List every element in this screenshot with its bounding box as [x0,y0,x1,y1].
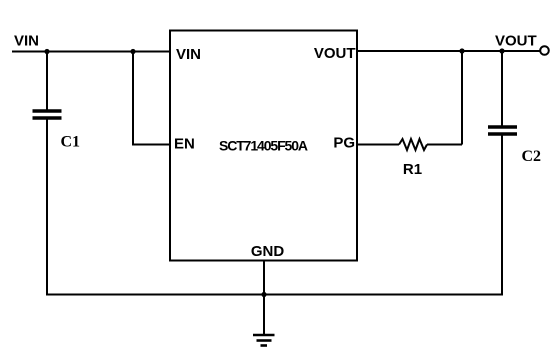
svg-text:SCT71405F50A: SCT71405F50A [219,138,308,154]
wire ground rail [46,294,503,296]
wire C1 top lead [46,52,48,111]
wire R1 riser to VOUT node [461,51,463,145]
svg-text:VOUT: VOUT [495,33,537,50]
svg-text:PG: PG [333,135,355,152]
svg-text:GND: GND [251,243,285,260]
node junction VIN/C1 [44,49,49,54]
svg-text:VOUT: VOUT [314,45,356,62]
ground [253,335,275,346]
wire C2 bottom lead to ground rail [501,136,503,296]
wire R1 to VOUT rail [427,144,462,146]
node junction VOUT/C2 [499,48,504,53]
node junction VOUT/R1 [459,48,464,53]
svg-text:VIN: VIN [176,46,201,63]
wire VOUT from IC to output terminal [357,50,540,52]
wire C1 bottom lead to ground rail [46,120,48,296]
wire VIN input to IC pin VIN [12,51,170,53]
resistor R1 [399,139,427,150]
svg-text:C1: C1 [61,134,81,151]
svg-text:EN: EN [174,136,195,153]
svg-text:C2: C2 [522,148,542,165]
capacitor C2 [488,127,517,134]
svg-text:R1: R1 [403,161,422,178]
op-amp U1 : IC box SCT71405F50A [170,31,357,261]
wire GND pin drop to ground [263,261,265,335]
node junction GND/ground rail [261,292,266,297]
wire EN horizontal into IC [132,144,170,146]
node junction VIN/EN [130,49,135,54]
svg-text:VIN: VIN [14,33,39,50]
wire PG to resistor R1 [357,144,399,146]
wire C2 top lead [501,51,503,126]
node VOUT output terminal [540,46,549,55]
wire EN drop from VIN rail [132,52,134,145]
capacitor C1 [33,111,62,118]
